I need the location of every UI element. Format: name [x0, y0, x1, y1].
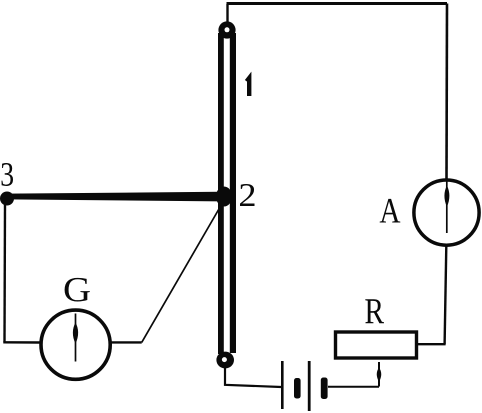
terminal (bottom of bar): [216, 352, 234, 369]
label 1: [247, 78, 250, 96]
slide wire bar (right edge line): [230, 33, 236, 353]
resistor R (rheostat body): [336, 332, 417, 358]
wire top rail: [227, 2, 448, 5]
thick rod wire from node 3 to node 2: [7, 192, 220, 202]
wire right side lower (ammeter to corner): [445, 246, 447, 344]
galvanometer G: [41, 310, 110, 379]
wire diagonal from galvanometer to node 2: [142, 202, 223, 342]
wire top-left riser from node 1 to top rail: [226, 4, 228, 30]
label 3: [2, 163, 13, 186]
node 3 dot: [0, 192, 14, 206]
node 2 junction blob: [216, 187, 232, 207]
label R: [365, 299, 384, 323]
wire node 3 down left side: [3, 203, 6, 342]
rheostat wiper arrow: [377, 362, 382, 387]
ammeter A: [414, 180, 479, 245]
slide wire bar (left edge line): [218, 33, 224, 354]
wire galvanometer right terminal: [112, 341, 142, 343]
battery cell plate (short thick, left): [294, 378, 301, 399]
wire bottom left to galvanometer: [3, 341, 40, 344]
wire battery positive to wiper: [328, 386, 379, 388]
battery cell plate (short thick, right): [321, 378, 328, 400]
label G: [65, 278, 90, 302]
terminal node 1 (top of bar): [218, 21, 235, 38]
wire slide-bar bottom terminal to battery: [225, 367, 281, 387]
label A: [380, 199, 401, 223]
battery cell plate (long thin, right): [308, 361, 311, 411]
label 2: [240, 184, 254, 206]
wire right side upper (top rail to ammeter): [445, 4, 448, 180]
battery cell plate (long thin, left): [281, 361, 284, 409]
wire corner to resistor R right terminal: [418, 343, 446, 345]
